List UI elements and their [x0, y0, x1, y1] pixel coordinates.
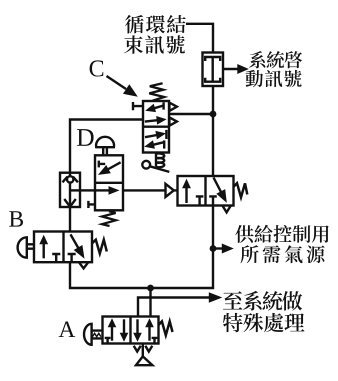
- valve E body: [178, 176, 234, 206]
- valve D bottom box arrow: [96, 189, 110, 191]
- wire right bus: signal unit to valve E top: [212, 86, 214, 176]
- valve E left box up arrow: [185, 187, 187, 203]
- signal converter unit U1: [203, 53, 224, 87]
- check valve unit F body: [60, 173, 80, 207]
- check valve unit F divider and bottom notch: [64, 190, 80, 206]
- node junction C-output / right bus: [210, 111, 217, 118]
- valve E right box diagonal arrow: [214, 178, 222, 193]
- valve A push button with spring left: [84, 324, 102, 345]
- valve E left box plug: [196, 196, 204, 205]
- text supply line1: [235, 225, 329, 243]
- wire valve C left port down left bus to check unit F: [70, 120, 143, 174]
- valve C plugged port top-left: [133, 102, 143, 110]
- label A: [59, 321, 76, 337]
- wire start-signal arrow stub: [223, 68, 240, 70]
- valve D return spring bottom: [102, 211, 116, 226]
- wire check unit F to valve B top: [69, 206, 71, 232]
- label C leader arrow: [107, 76, 127, 89]
- wire supply arrow stub: [213, 247, 223, 249]
- check valve unit F ball and seat: [63, 173, 78, 207]
- node junction right bus / supply arrow: [210, 245, 217, 252]
- valve C top box flow paths: [145, 102, 167, 124]
- valve C return spring top: [149, 83, 164, 100]
- valve D push button top: [96, 137, 114, 155]
- valve C body: [143, 101, 169, 153]
- valve A return spring right: [159, 321, 173, 335]
- label C: [90, 60, 104, 76]
- valve A right box arrows: [133, 318, 157, 343]
- valve C exhaust triangle mid-right: [169, 117, 177, 125]
- valve B push button left: [18, 237, 34, 257]
- valve B left box up arrow: [43, 243, 45, 258]
- wire valve A port to special-processing arrow: [138, 298, 210, 317]
- wire valve D output to inline check valve: [123, 189, 165, 191]
- wire valve C output to right bus: [169, 113, 213, 115]
- arrowhead to special-processing text: [209, 292, 223, 303]
- text start-signal line1: [249, 51, 302, 68]
- text cycle-end line1: [125, 15, 186, 34]
- inline check valve between D and E: [166, 184, 178, 197]
- arrowhead to supply text: [222, 244, 234, 254]
- text start-signal line2: [246, 70, 302, 87]
- valve A exhaust line and open triangle: [136, 344, 152, 366]
- text special line1: [223, 291, 302, 311]
- valve B body: [34, 232, 92, 263]
- valve A exhaust seats: [134, 346, 153, 352]
- valve B return spring right: [92, 240, 107, 254]
- valve D body: [95, 155, 123, 210]
- text special line2: [223, 313, 305, 332]
- valve C bottom box flow paths: [144, 130, 166, 149]
- arrowhead to start-signal text: [237, 64, 249, 74]
- valve B right box plug: [68, 254, 76, 262]
- wire valve A port to bottom bus: [149, 288, 151, 317]
- label D: [77, 129, 94, 146]
- valve E exhaust seat: [223, 206, 231, 213]
- wire from cycle-end text to signal unit: [186, 24, 213, 53]
- valve E right box plug: [209, 196, 217, 205]
- valve B exhaust seat: [79, 262, 89, 269]
- valve D exhaust port bottom-left: [88, 201, 95, 208]
- valve B left box plug: [52, 254, 60, 262]
- wire valve B bottom along bottom bus up to valve E bottom: [70, 205, 213, 288]
- valve B right box diagonal arrow: [71, 234, 79, 248]
- valve A left box arrows: [105, 318, 129, 343]
- text cycle-end line2: [124, 35, 185, 54]
- valve E return spring right: [234, 183, 248, 197]
- label B: [9, 211, 23, 226]
- valve C roller-spring pilot bottom: [142, 153, 169, 172]
- valve D top box arrow: [108, 162, 121, 169]
- valve A body: [103, 317, 159, 344]
- valve C exhaust triangle top-right: [169, 103, 177, 111]
- valve D top box plug: [99, 161, 105, 168]
- text supply line2: [241, 245, 325, 263]
- wire check unit F output to valve D input: [80, 189, 95, 191]
- node junction bottom bus / valve A: [147, 285, 154, 292]
